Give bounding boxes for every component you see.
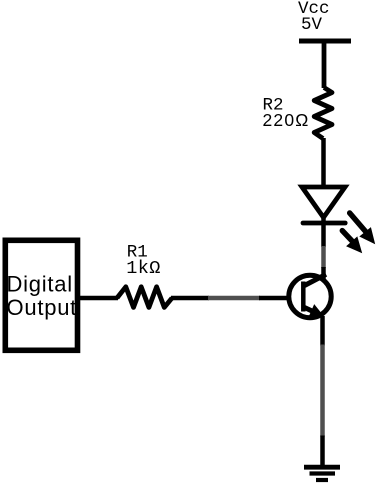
resistor R1 <box>117 287 172 308</box>
label R2 <box>263 96 284 116</box>
svg-text:Digital: Digital <box>7 272 73 297</box>
wire Q1 emitter to ground <box>320 316 325 467</box>
wire R1 to Q1 base <box>171 296 290 301</box>
svg-text:1kΩ: 1kΩ <box>126 258 161 279</box>
wire Vcc rail to R2 <box>322 41 327 88</box>
label Digital <box>7 272 73 297</box>
LED light arrow 2 <box>342 231 362 254</box>
transistor Q1 base bar <box>301 282 306 312</box>
power rail Vcc bar <box>299 39 351 44</box>
value label 5V <box>301 15 323 35</box>
label Output <box>7 295 78 320</box>
net label Vcc <box>298 0 330 19</box>
label R1 <box>127 243 148 263</box>
wire R2 to LED anode <box>321 138 326 187</box>
LED cathode bar <box>303 221 345 226</box>
wire box to R1 <box>80 296 118 301</box>
transistor Q1 emitter arrowhead <box>309 304 324 317</box>
wire LED cathode to Q1 collector <box>321 217 326 279</box>
digital output box <box>5 240 77 350</box>
value label 220Ω <box>263 110 310 130</box>
LED D1 triangle <box>302 187 345 218</box>
transistor Q1 emitter stroke <box>305 308 322 316</box>
resistor R2 <box>314 88 332 139</box>
transistor Q1 circle <box>289 275 331 317</box>
svg-text:Output: Output <box>7 295 78 320</box>
svg-text:5V: 5V <box>301 15 323 35</box>
LED light arrow 1 <box>350 213 376 244</box>
svg-text:220Ω: 220Ω <box>263 110 310 130</box>
transistor Q1 collector stroke <box>305 274 327 285</box>
ground <box>304 467 340 480</box>
value label 1kΩ <box>126 258 161 279</box>
